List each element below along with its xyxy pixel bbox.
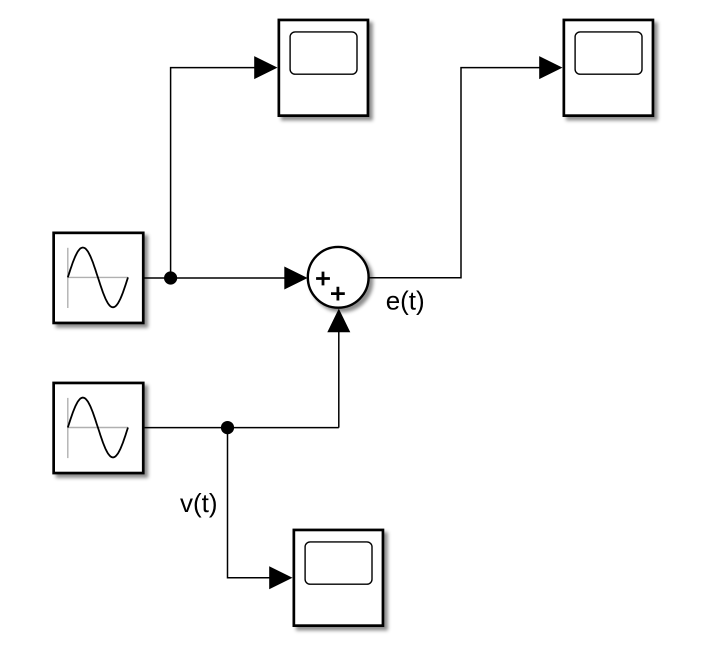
sine wave source block 2 (body) bbox=[54, 383, 144, 473]
arrowhead into Scope3 bbox=[269, 566, 292, 589]
sine2 icon vertical axis bbox=[67, 398, 69, 458]
Scope1 block (top middle) body bbox=[279, 20, 368, 116]
sine2 icon horizontal axis bbox=[67, 427, 128, 429]
sine1 icon sine curve bbox=[68, 248, 128, 308]
svg-text:v(t): v(t) bbox=[180, 488, 218, 518]
sine1 icon horizontal axis bbox=[67, 276, 128, 278]
arrowhead into Sum bottom input bbox=[327, 309, 350, 333]
Scope3 block (bottom) body bbox=[294, 530, 383, 626]
sine1 icon vertical axis bbox=[67, 248, 69, 308]
arrowhead into Sum left input bbox=[284, 267, 307, 290]
sine wave source block 1 (body) bbox=[54, 233, 144, 323]
arrowhead into Scope1 bbox=[254, 56, 277, 79]
Scope2 block (top right) body bbox=[564, 20, 653, 116]
wire from Sine Wave 1 output to Sum left input bbox=[144, 277, 285, 279]
Sum plus sign 2 (bottom input) bbox=[331, 287, 345, 301]
wire from Sine Wave 2 output to Sum bottom input bbox=[145, 332, 339, 428]
Scope2 screen (inner rounded rect) bbox=[575, 32, 642, 74]
svg-text:e(t): e(t) bbox=[386, 285, 425, 315]
Sum block (circle) body bbox=[308, 247, 369, 308]
wire branch down from node B to Scope3 bbox=[228, 428, 270, 578]
node A (junction dot on sine1 wire) bbox=[164, 271, 177, 284]
Scope3 screen (inner rounded rect) bbox=[305, 542, 372, 584]
wire from Sum output to Scope2, label e(t) row bbox=[369, 68, 541, 278]
sine2 icon sine curve bbox=[68, 398, 128, 458]
Scope1 screen (inner rounded rect) bbox=[290, 32, 357, 74]
wire branch up from node A to Scope1 bbox=[171, 68, 255, 278]
arrowhead into Scope2 bbox=[539, 56, 562, 79]
node B (junction dot on sine2 wire) bbox=[221, 421, 234, 434]
Sum plus sign 1 (left input) bbox=[316, 272, 330, 286]
